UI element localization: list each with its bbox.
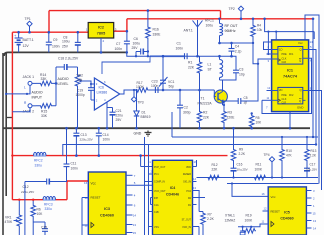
wire IC3 pin Q7 — [126, 204, 133, 206]
svg-text:Q: Q — [299, 59, 301, 63]
svg-text:470K: 470K — [5, 220, 14, 224]
node R6 top — [32, 199, 34, 201]
svg-text:14: 14 — [133, 214, 137, 218]
wire cross line y144.5 — [63, 145, 316, 156]
ground bus top horizontal — [4, 52, 127, 56]
svg-text:14: 14 — [193, 177, 196, 181]
svg-text:ZENER: ZENER — [183, 173, 191, 176]
svg-text:GND: GND — [297, 106, 303, 110]
wire IC4 pin1 stub — [141, 166, 153, 168]
wire D feedback loop — [264, 42, 272, 50]
svg-text:22K: 22K — [212, 168, 219, 172]
wire IC1 gnd pin — [289, 112, 291, 129]
node L1 top — [218, 55, 221, 58]
resistor R11 100K — [251, 175, 269, 180]
svg-text:VCO_OUT: VCO_OUT — [154, 190, 166, 193]
inductor L1 — [219, 56, 221, 59]
capacitor C9 — [48, 32, 50, 42]
test point TP4 — [269, 157, 274, 162]
wire red vertical rail E up — [66, 181, 68, 200]
capacitor C6 — [136, 51, 141, 53]
wire xtal line to clock — [257, 224, 263, 227]
svg-text:T1: T1 — [201, 97, 205, 101]
resistor R6 10K — [31, 200, 36, 222]
svg-text:16: 16 — [84, 181, 88, 185]
svg-text:CLR: CLR — [282, 102, 287, 104]
svg-text:16: 16 — [262, 192, 266, 196]
wire FF1 Q out — [303, 50, 316, 145]
svg-text:10u,25V: 10u,25V — [237, 167, 248, 171]
wire IC4 pin7 stub — [149, 211, 153, 213]
node R5 bottom — [250, 127, 253, 130]
node emitter — [223, 104, 225, 106]
wire C19 to pin2 — [91, 99, 94, 101]
wire y183 5V line — [227, 183, 319, 185]
op-amp IC6 LM386 — [94, 78, 119, 110]
jack JACK 1 — [28, 81, 32, 85]
svg-text:15: 15 — [313, 212, 317, 216]
svg-text:C21: C21 — [116, 109, 122, 113]
wire IC4 pin12 R12 — [193, 197, 206, 199]
svg-text:PC2: PC2 — [186, 190, 191, 193]
wire feed IC4 left a — [144, 137, 146, 235]
svg-text:100n: 100n — [176, 47, 184, 51]
svg-text:12V: 12V — [23, 44, 30, 48]
wire RF node to clock line — [253, 43, 258, 64]
svg-text:IC5: IC5 — [284, 211, 290, 215]
svg-text:BB919: BB919 — [141, 115, 151, 119]
svg-text:Vcc: Vcc — [271, 195, 277, 199]
svg-text:L: L — [24, 86, 26, 90]
svg-text:220E: 220E — [227, 116, 236, 120]
svg-text:1000p: 1000p — [76, 93, 85, 97]
wire W1 PLL filter line — [197, 177, 319, 179]
capacitor C15 — [44, 222, 46, 229]
svg-text:JACK 1: JACK 1 — [23, 75, 35, 79]
wire vertical from C2 region to y137 — [171, 112, 173, 137]
svg-text:C16: C16 — [237, 163, 243, 167]
svg-text:C5: C5 — [244, 96, 248, 100]
wire IC5 clock stub — [263, 223, 269, 225]
flip-flop FF1 box — [278, 47, 303, 65]
svg-text:VDD: VDD — [186, 166, 191, 169]
svg-text:C1: C1 — [177, 42, 181, 46]
wire IC4 supply drop — [140, 156, 142, 167]
capacitor C1 100n — [163, 55, 185, 57]
svg-text:25V: 25V — [132, 46, 139, 50]
svg-text:PRE: PRE — [282, 94, 287, 97]
wire IC5 pin Q e — [306, 220, 311, 222]
wire IC4 pin5 stub — [151, 197, 153, 199]
svg-text:Vcc: Vcc — [91, 182, 97, 186]
wire FF2 D stub — [267, 90, 278, 92]
svg-text:TP1: TP1 — [25, 17, 31, 21]
wire right loop down — [313, 32, 315, 39]
svg-text:100u: 100u — [62, 40, 70, 44]
svg-text:VC1: VC1 — [168, 80, 175, 84]
wire IC5 pin Q b — [306, 197, 311, 199]
IC IC3 CD4060 — [88, 172, 126, 235]
svg-text:C3: C3 — [239, 68, 243, 72]
node R5 top — [251, 112, 253, 114]
ground bus mid horizontal — [3, 127, 310, 129]
svg-text:L1: L1 — [208, 63, 212, 67]
svg-text:100n: 100n — [71, 166, 79, 170]
capacitor C3 10p — [235, 56, 237, 70]
test point TP3 — [131, 97, 136, 102]
svg-text:50p: 50p — [169, 85, 175, 89]
node xtal b — [250, 226, 252, 228]
node IC5 vcc feed — [231, 182, 233, 184]
wire IC4 pin13 PC2 — [193, 191, 200, 212]
svg-text:R1: R1 — [188, 61, 192, 65]
wire IC3 reset stub — [82, 197, 88, 199]
wire IC4 pin11 stub — [193, 204, 197, 206]
node battery positive — [17, 31, 20, 34]
node C13 bottom — [75, 154, 78, 157]
+12V top rail A — [49, 10, 221, 12]
node C14 top — [98, 127, 101, 130]
wire VR2 wiper to pin3 — [84, 81, 94, 84]
svg-text:2D: 2D — [279, 88, 282, 92]
wire IC3 pin Q9 — [126, 224, 133, 226]
battery rail C left — [12, 31, 88, 33]
svg-text:10K: 10K — [37, 212, 44, 216]
svg-text:RFC2: RFC2 — [34, 159, 43, 163]
svg-text:C1B: C1B — [154, 211, 159, 214]
red left vertical rail — [11, 32, 13, 200]
svg-text:R15: R15 — [41, 110, 47, 114]
svg-text:25V: 25V — [62, 45, 69, 49]
svg-text:15: 15 — [133, 231, 137, 235]
capacitor C17 10u 25V — [306, 161, 308, 168]
svg-text:10k: 10k — [77, 78, 83, 82]
inductor RFC2 — [34, 154, 47, 156]
svg-text:C14: C14 — [103, 133, 109, 137]
antenna ANT.1 — [197, 27, 199, 56]
resistor R5 10K — [251, 113, 253, 116]
node TP1 on rail — [28, 31, 31, 34]
regulator IC2 7805 — [88, 23, 114, 39]
svg-text:R13: R13 — [311, 149, 317, 153]
wire IC1 pullup top line — [265, 19, 315, 31]
wire W1 up to pin — [196, 167, 198, 178]
wire IC3 clock stub — [82, 224, 88, 226]
svg-text:220u: 220u — [116, 114, 124, 118]
wire LM386 pin4 ground — [106, 102, 108, 128]
svg-text:VR1: VR1 — [5, 215, 12, 219]
wire jack2 to R15 — [32, 105, 36, 107]
svg-text:PRE: PRE — [282, 53, 287, 56]
node pullup on rail B — [263, 18, 266, 21]
wire IC4 pin4 stub — [149, 190, 153, 192]
wire red rail F to IC3 Vcc — [67, 180, 88, 182]
svg-text:Q: Q — [299, 99, 301, 103]
svg-text:13: 13 — [193, 186, 196, 190]
node VR1 top — [18, 199, 20, 201]
svg-text:100n: 100n — [103, 138, 111, 142]
svg-text:2.2K: 2.2K — [239, 152, 246, 156]
node D1 top — [135, 89, 137, 91]
wire IC3 pin Q5 — [126, 185, 153, 235]
node C14 bottom — [98, 154, 101, 157]
svg-text:PCP_OUT: PCP_OUT — [154, 166, 166, 169]
svg-text:CLR: CLR — [282, 62, 287, 64]
wire IC4 pin9 VCO_IN — [193, 226, 200, 228]
capacitor C18 2.2u 25V — [56, 66, 64, 68]
svg-text:330E: 330E — [153, 33, 162, 37]
svg-text:100n: 100n — [115, 47, 123, 51]
node D1 bottom on bus — [135, 127, 138, 130]
wire IC4 pin3 stub — [145, 181, 153, 183]
svg-text:IC6: IC6 — [99, 86, 105, 90]
wire FF1 D stub — [267, 49, 278, 51]
node C7 top — [126, 30, 129, 33]
+5V rail B — [127, 18, 313, 20]
wire red vertical from rail A to battery rail — [48, 11, 50, 33]
svg-text:100n: 100n — [52, 45, 60, 49]
node R3 bottom on bus — [223, 127, 226, 130]
svg-text:VCO_IN: VCO_IN — [182, 226, 191, 229]
wire IC5 pin Q d — [306, 212, 311, 214]
resistor R9 2.2K — [231, 128, 236, 161]
svg-text:RFC1: RFC1 — [205, 19, 214, 23]
capacitor C5 3p — [237, 100, 239, 102]
resistor R10 47K — [280, 137, 285, 161]
svg-text:COMP_IN: COMP_IN — [154, 180, 165, 183]
svg-text:R6: R6 — [37, 208, 41, 212]
wire IC5 pin Q f — [306, 227, 311, 229]
wire T1 base — [214, 96, 216, 98]
svg-text:100n: 100n — [151, 84, 159, 88]
svg-text:100K: 100K — [245, 219, 254, 223]
wire tank line — [188, 55, 232, 57]
svg-text:13: 13 — [313, 219, 317, 223]
wire pre drop b — [275, 32, 277, 40]
wire IC3 pin Q6 — [126, 194, 133, 196]
IC IC1 74AC74 — [272, 40, 309, 112]
node C2 top — [179, 89, 182, 92]
svg-text:BATT.1: BATT.1 — [23, 38, 34, 42]
svg-text:FF2: FF2 — [289, 94, 294, 97]
node pin4 on bus — [106, 127, 109, 130]
wire IC4 pin14 stub — [193, 181, 197, 183]
svg-text:XTAL1: XTAL1 — [225, 214, 235, 218]
wire jack1 to R14 — [32, 82, 36, 84]
wire T1 collector — [220, 80, 223, 92]
svg-text:C9: C9 — [53, 38, 57, 42]
ground stub to jack shield — [6, 117, 12, 119]
capacitor C2 300p — [179, 90, 181, 105]
wire red drop rail A to rail B — [220, 11, 222, 19]
svg-text:CLK: CLK — [282, 57, 287, 60]
svg-text:IC4: IC4 — [170, 186, 176, 190]
node R2 bottom on bus — [198, 127, 201, 130]
+12V rail D — [12, 155, 227, 157]
wire jack1 shield — [6, 85, 30, 94]
svg-text:C2: C2 — [184, 106, 188, 110]
svg-text:RESET: RESET — [271, 210, 281, 214]
capacitor C12 220u 25V — [25, 181, 47, 183]
svg-text:C1A: C1A — [154, 204, 159, 207]
wire C5 to IC1 clock — [243, 59, 267, 101]
node RFC1 top — [218, 18, 221, 21]
svg-text:C15: C15 — [41, 226, 47, 230]
svg-text:AUDIO: AUDIO — [32, 91, 43, 95]
svg-text:TP4: TP4 — [264, 153, 270, 157]
svg-text:RF OUT: RF OUT — [225, 24, 239, 28]
svg-text:C6: C6 — [134, 37, 138, 41]
svg-text:CLK: CLK — [282, 98, 287, 101]
wire emitter to C5 — [223, 101, 237, 105]
node C4 top — [230, 42, 233, 45]
svg-text:C19: C19 — [77, 89, 83, 93]
wire tank highlight — [150, 55, 184, 57]
svg-text:25V: 25V — [116, 118, 123, 122]
svg-text:10p: 10p — [239, 73, 245, 77]
capacitor C13 220u 25V — [75, 128, 77, 133]
wire T1 emitter down — [222, 102, 224, 105]
svg-text:SIG_IN: SIG_IN — [183, 180, 191, 183]
node TP3 on output — [133, 89, 135, 91]
svg-text:CD4060: CD4060 — [100, 214, 114, 218]
svg-text:C17: C17 — [310, 163, 316, 167]
svg-text:12: 12 — [85, 196, 89, 200]
wire cross line y137 — [172, 136, 318, 138]
diode D1 BB919 — [136, 90, 138, 111]
node C16 on W1 — [232, 176, 234, 178]
wire FF1 CLK stub — [267, 58, 278, 60]
svg-text:INH: INH — [154, 197, 158, 200]
node R10 on W1 — [281, 176, 283, 178]
svg-text:R19: R19 — [246, 214, 252, 218]
node C13 top — [75, 127, 78, 130]
svg-text:Vcc: Vcc — [298, 41, 303, 45]
svg-text:AUDIO: AUDIO — [58, 77, 69, 81]
svg-text:C23: C23 — [152, 80, 158, 84]
svg-text:7805: 7805 — [97, 32, 105, 36]
node xtal a — [242, 226, 244, 228]
svg-text:13: 13 — [133, 223, 137, 227]
node R4 top — [252, 18, 255, 21]
svg-text:22K: 22K — [188, 66, 195, 70]
svg-text:330u: 330u — [35, 163, 43, 167]
node C8 top — [77, 31, 80, 34]
svg-text:33K: 33K — [41, 114, 48, 118]
capacitor C11 100n — [66, 128, 68, 164]
svg-text:12MHZ: 12MHZ — [225, 219, 236, 223]
node TP4 on W1 — [271, 176, 273, 178]
svg-text:TP3: TP3 — [138, 101, 144, 105]
wire tank line from bus end — [127, 52, 184, 56]
wire 7805 output — [114, 30, 127, 32]
resistor R2 22K — [197, 90, 202, 128]
frame left border — [2, 53, 4, 235]
node rail D left — [11, 154, 13, 156]
wire LM386 pin1 gain — [102, 56, 150, 74]
capacitor C16 10u 25V — [233, 161, 235, 168]
svg-text:GND: GND — [134, 132, 142, 136]
svg-text:ANT.1: ANT.1 — [184, 29, 193, 33]
capacitor C14 100n — [98, 128, 100, 133]
svg-text:22K: 22K — [203, 116, 210, 120]
svg-text:12: 12 — [264, 207, 267, 211]
svg-text:10K: 10K — [256, 121, 263, 125]
resistor R7 2.2K — [199, 211, 203, 213]
svg-text:CD4046: CD4046 — [166, 193, 179, 197]
capacitor C23 100n — [148, 89, 155, 91]
IC IC5 CD4060 — [268, 187, 306, 235]
wire IC3 pin Q10 — [126, 232, 133, 234]
svg-text:R5: R5 — [256, 116, 260, 120]
battery BATT.1 12V — [18, 32, 20, 38]
wire IC5 pin Q a — [306, 190, 311, 192]
svg-text:R10: R10 — [286, 149, 292, 153]
node R14 right — [55, 82, 58, 85]
svg-text:1D: 1D — [279, 48, 282, 52]
svg-text:R7: R7 — [208, 213, 212, 217]
node VC1 bottom on base line — [162, 89, 165, 92]
node IC4 supply — [139, 154, 142, 157]
potentiometer VR2 10k — [77, 67, 79, 74]
resistor R14 33K — [36, 81, 56, 86]
node C7 bottom on bus — [126, 51, 129, 54]
svg-text:100K: 100K — [136, 85, 145, 89]
wire LM386 output — [120, 90, 137, 94]
resistor R3 220E — [222, 105, 227, 128]
node shield on bus — [5, 93, 7, 95]
svg-text:R12: R12 — [212, 163, 218, 167]
svg-text:TP2: TP2 — [229, 7, 235, 11]
capacitor C19 1000p — [90, 84, 92, 88]
svg-text:C7: C7 — [116, 42, 120, 46]
wire FF1 PRE stub — [267, 53, 278, 55]
svg-text:IC2: IC2 — [98, 26, 104, 30]
svg-text:220u,25V: 220u,25V — [21, 190, 35, 194]
svg-text:C18 2.2u,25V: C18 2.2u,25V — [58, 57, 79, 61]
svg-text:96MHz: 96MHz — [225, 29, 236, 33]
svg-text:PC1: PC1 — [154, 173, 159, 176]
resistor R16 330E — [146, 11, 151, 57]
test point TP1 — [27, 21, 32, 26]
svg-text:14: 14 — [313, 227, 317, 231]
svg-text:2.2p: 2.2p — [235, 49, 242, 53]
trimmer VC1 50p — [162, 56, 164, 80]
wire IC4 pin6 stub — [151, 204, 153, 206]
wire IC1 vcc pin up — [305, 15, 319, 184]
wire IC5 vcc feed — [232, 184, 268, 197]
svg-text:Q: Q — [300, 88, 302, 92]
svg-text:LM386: LM386 — [97, 91, 108, 95]
svg-text:2.2K: 2.2K — [310, 154, 317, 158]
inductor RFC3 — [43, 198, 56, 200]
svg-text:C4: C4 — [235, 45, 239, 49]
jack JACK 2 — [28, 104, 32, 108]
node C19 top — [90, 83, 92, 85]
svg-text:100K: 100K — [255, 167, 263, 171]
node tank tap — [162, 55, 165, 58]
svg-text:ST: ST — [208, 68, 212, 72]
resistor R4 10k — [251, 19, 256, 43]
wire IC5 pin Q c — [306, 205, 311, 207]
svg-text:2.2K: 2.2K — [207, 217, 215, 221]
svg-text:RESET: RESET — [91, 196, 101, 200]
wire IC4 pin2 stub — [149, 173, 153, 175]
resistor R1 22K — [197, 56, 202, 90]
+12V rail E — [12, 199, 67, 201]
wire C21 tap — [107, 107, 113, 109]
node C9 top — [48, 31, 51, 34]
